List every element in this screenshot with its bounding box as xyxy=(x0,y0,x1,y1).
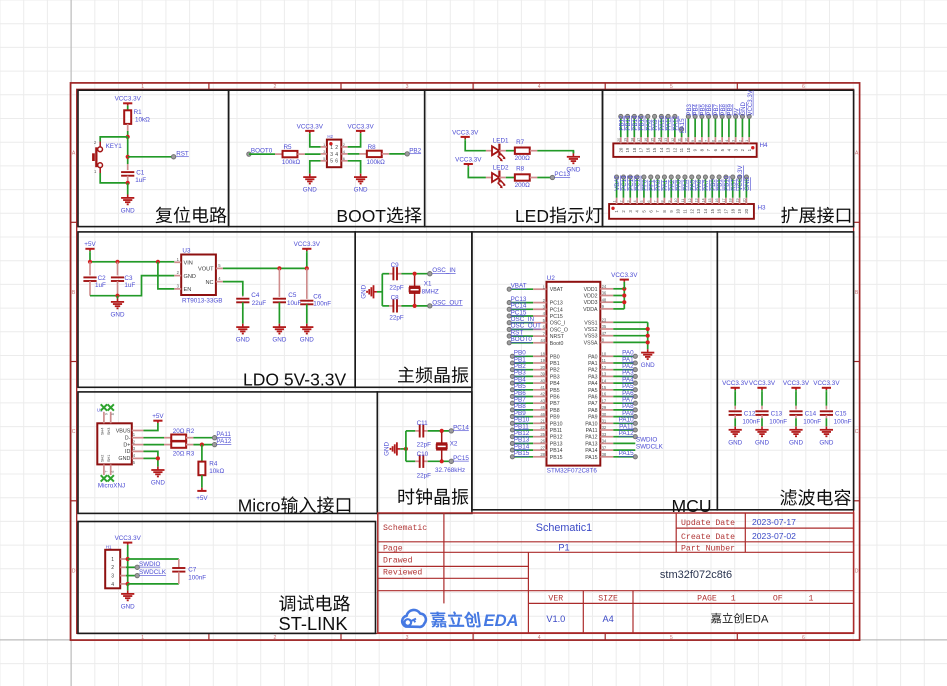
svg-text:EN: EN xyxy=(184,287,192,293)
svg-text:ST-LINK: ST-LINK xyxy=(279,613,348,634)
node reset junction top xyxy=(126,135,130,139)
svg-text:GND: GND xyxy=(641,362,655,369)
svg-text:20: 20 xyxy=(744,208,749,213)
svg-text:6: 6 xyxy=(802,84,805,90)
wire LED2 to R8 xyxy=(499,177,506,179)
wire H2 pin4 to R8 xyxy=(348,153,360,155)
svg-text:5: 5 xyxy=(670,635,673,641)
wire node to switch xyxy=(100,137,128,142)
switch KEY1 xyxy=(92,140,122,174)
svg-text:PB1: PB1 xyxy=(550,361,560,367)
svg-text:47: 47 xyxy=(602,331,607,336)
svg-text:1: 1 xyxy=(613,200,617,202)
svg-text:15: 15 xyxy=(708,198,712,202)
svg-text:1: 1 xyxy=(330,145,333,151)
svg-text:14: 14 xyxy=(701,198,705,202)
svg-text:1: 1 xyxy=(111,557,114,563)
svg-text:38: 38 xyxy=(602,452,607,457)
ground GND rotated (xtal2) xyxy=(384,441,406,455)
block box expansion xyxy=(603,90,854,226)
title block vendor name xyxy=(711,613,769,626)
svg-text:R8: R8 xyxy=(368,144,377,151)
svg-text:PA2: PA2 xyxy=(588,368,598,374)
node ldo rail c xyxy=(156,260,160,264)
ground GND (mcu) xyxy=(641,349,655,369)
svg-text:10uF: 10uF xyxy=(287,300,302,307)
block box ldo xyxy=(78,232,355,387)
wire switch to bottom node xyxy=(100,173,128,183)
svg-text:LED2: LED2 xyxy=(493,164,509,171)
svg-text:18: 18 xyxy=(630,138,634,142)
svg-text:42: 42 xyxy=(540,392,545,397)
resistor R8 (boot) xyxy=(359,144,389,166)
svg-text:LED1: LED1 xyxy=(493,138,509,145)
svg-text:2: 2 xyxy=(274,635,277,641)
ground GND (C15) xyxy=(819,426,833,446)
node RST tap xyxy=(126,155,130,159)
wire node down to C1 xyxy=(127,137,129,164)
wire xtal1 left riser xyxy=(381,274,383,306)
svg-text:18: 18 xyxy=(540,352,545,357)
wire +5V rail xyxy=(90,252,174,262)
svg-text:3: 3 xyxy=(732,140,736,142)
svg-text:14: 14 xyxy=(703,208,708,213)
svg-text:10: 10 xyxy=(602,352,607,357)
node usb gnd junction xyxy=(156,456,160,460)
svg-text:17: 17 xyxy=(637,138,641,142)
svg-text:13: 13 xyxy=(664,138,668,142)
svg-text:2: 2 xyxy=(274,84,277,90)
wire H1 pin2 SWDIO xyxy=(126,566,137,568)
svg-text:36: 36 xyxy=(602,291,607,296)
svg-text:PB2: PB2 xyxy=(409,147,421,154)
wire VCC to H2 pin1 xyxy=(310,134,321,147)
svg-text:PB10: PB10 xyxy=(550,421,563,427)
capacitor C3 xyxy=(111,262,136,296)
svg-text:PA7: PA7 xyxy=(588,401,598,407)
ground GND (C5) xyxy=(272,324,286,344)
capacitor C1 xyxy=(121,169,146,184)
pin header H1 xyxy=(105,544,126,588)
svg-text:15: 15 xyxy=(710,208,715,213)
svg-text:A4: A4 xyxy=(602,614,613,624)
svg-text:D-: D- xyxy=(125,436,131,442)
svg-text:GND: GND xyxy=(384,441,391,455)
wire xtal2 top xyxy=(406,430,415,432)
svg-text:D+: D+ xyxy=(123,442,130,448)
svg-text:12: 12 xyxy=(672,147,677,152)
svg-text:22pF: 22pF xyxy=(389,315,404,322)
power flag VCC3.3V (debug) xyxy=(115,535,142,546)
ground GND (boot left) xyxy=(303,174,317,194)
svg-text:+5V: +5V xyxy=(84,241,96,248)
svg-text:PB2: PB2 xyxy=(550,368,560,374)
wire R3 to PA12 xyxy=(193,444,214,446)
svg-text:PB3: PB3 xyxy=(550,374,560,380)
svg-text:2: 2 xyxy=(619,200,623,202)
svg-text:1uF: 1uF xyxy=(95,282,106,289)
svg-text:R7: R7 xyxy=(516,139,525,146)
svg-text:5: 5 xyxy=(718,140,722,142)
svg-text:PA14: PA14 xyxy=(585,448,597,454)
crystal X1 xyxy=(409,276,439,304)
svg-text:H2: H2 xyxy=(327,134,333,139)
svg-text:27: 27 xyxy=(540,445,545,450)
title micro block xyxy=(238,496,351,516)
svg-text:1: 1 xyxy=(745,140,749,142)
capacitor C11 xyxy=(417,420,432,449)
svg-text:14: 14 xyxy=(602,378,607,383)
svg-text:12: 12 xyxy=(671,138,675,142)
svg-text:VBUS: VBUS xyxy=(116,428,131,434)
svg-text:GND: GND xyxy=(303,187,317,194)
svg-text:8: 8 xyxy=(698,140,702,142)
power flag VCC3.3V (ldo out) xyxy=(294,241,321,252)
svg-text:C10: C10 xyxy=(417,451,429,458)
svg-text:Page: Page xyxy=(383,544,403,553)
svg-text:200Ω: 200Ω xyxy=(515,182,531,189)
svg-text:VCC3.3V: VCC3.3V xyxy=(783,380,810,387)
svg-text:PA5: PA5 xyxy=(588,388,598,394)
svg-text:35: 35 xyxy=(602,324,607,329)
svg-text:12: 12 xyxy=(688,198,692,202)
svg-text:C8: C8 xyxy=(391,295,400,302)
svg-text:23: 23 xyxy=(602,318,607,323)
svg-text:2: 2 xyxy=(335,145,338,151)
svg-text:C14: C14 xyxy=(805,410,817,417)
svg-text:R4: R4 xyxy=(209,460,218,467)
svg-text:PC13: PC13 xyxy=(550,301,563,307)
wire R7 to GND xyxy=(537,151,573,154)
capacitor C5 xyxy=(273,268,302,323)
net port BOOT0 xyxy=(247,148,273,157)
wire H1 pin1 xyxy=(126,558,128,560)
capacitor C10 xyxy=(417,451,432,479)
svg-text:19: 19 xyxy=(737,208,742,213)
svg-text:11: 11 xyxy=(681,199,685,203)
wire D+ to R3 xyxy=(144,444,165,446)
svg-text:100nF: 100nF xyxy=(313,301,331,308)
svg-text:OF: OF xyxy=(773,595,783,604)
svg-text:GND: GND xyxy=(121,208,135,215)
block box boot xyxy=(229,90,425,226)
svg-text:29: 29 xyxy=(602,405,607,410)
svg-text:PB13: PB13 xyxy=(550,441,563,447)
svg-text:9: 9 xyxy=(691,140,695,142)
svg-text:PA12: PA12 xyxy=(619,430,634,437)
ground GND (usb) xyxy=(151,467,165,487)
svg-text:X2: X2 xyxy=(450,440,458,447)
wire R4 to +5V flag xyxy=(201,475,203,488)
capacitor C9 xyxy=(389,262,404,291)
mcu right PA0-PA15 pins xyxy=(585,350,663,461)
wire xtal1 top xyxy=(382,273,389,275)
resistor R3 xyxy=(164,441,195,457)
svg-text:18: 18 xyxy=(632,147,637,152)
svg-text:100kΩ: 100kΩ xyxy=(282,159,301,166)
svg-text:SH2: SH2 xyxy=(100,455,104,462)
svg-text:PB7: PB7 xyxy=(550,401,560,407)
led LED1 xyxy=(486,138,509,162)
net port PA11 xyxy=(212,431,231,440)
net port SWDCLK (debug) xyxy=(135,569,167,578)
capacitor C6 xyxy=(300,268,331,323)
wire VCC to LED1 xyxy=(465,140,486,151)
svg-text:LED: LED xyxy=(515,206,549,226)
svg-text:1: 1 xyxy=(808,595,813,604)
wire H1 pin4 gnd xyxy=(126,583,128,585)
block box mcu xyxy=(472,232,717,510)
svg-text:ID: ID xyxy=(125,449,130,455)
svg-text:3: 3 xyxy=(626,200,630,202)
svg-text:100nF: 100nF xyxy=(742,418,760,425)
svg-text:1: 1 xyxy=(731,595,736,604)
svg-text:P1: P1 xyxy=(558,543,569,553)
svg-text:11: 11 xyxy=(602,358,607,363)
resistor R2 xyxy=(164,428,195,441)
wire C7 top xyxy=(128,558,179,560)
title xtal main block xyxy=(398,366,468,383)
svg-text:MicroXNJ: MicroXNJ xyxy=(98,482,125,489)
net port PC14 xyxy=(449,424,469,433)
svg-text:GND: GND xyxy=(744,177,751,191)
title led block xyxy=(515,206,602,226)
title block table lines xyxy=(378,513,854,633)
usb signal pins xyxy=(116,428,144,465)
ground GND (reset) xyxy=(121,183,135,215)
svg-text:20: 20 xyxy=(540,365,545,370)
svg-text:17: 17 xyxy=(722,198,726,202)
svg-text:13: 13 xyxy=(696,208,701,213)
capacitor C8 xyxy=(389,295,404,322)
svg-text:VCC3.3V: VCC3.3V xyxy=(294,241,321,248)
svg-text:10: 10 xyxy=(674,198,678,202)
svg-text:C11: C11 xyxy=(417,420,429,427)
wire ID to gnd riser xyxy=(144,451,158,466)
svg-text:17: 17 xyxy=(639,147,644,152)
svg-text:1: 1 xyxy=(141,635,144,641)
svg-text:VIN: VIN xyxy=(184,261,193,267)
svg-text:14: 14 xyxy=(657,138,661,142)
svg-text:5: 5 xyxy=(670,84,673,90)
pin header H3 with ports xyxy=(609,164,766,218)
svg-text:OSC_OUT: OSC_OUT xyxy=(432,299,463,306)
power flag VCC3.3V (filter C13) xyxy=(749,380,776,391)
crystal X2 xyxy=(435,432,465,474)
svg-text:Create Date: Create Date xyxy=(681,533,735,542)
svg-text:4: 4 xyxy=(111,582,114,588)
svg-text:KEY1: KEY1 xyxy=(106,143,123,150)
wire BOOT0 to R5 xyxy=(249,153,275,155)
svg-text:3: 3 xyxy=(111,574,114,580)
svg-text:100nF: 100nF xyxy=(769,418,787,425)
svg-text:10kΩ: 10kΩ xyxy=(135,117,150,124)
wire VOUT rail xyxy=(223,252,307,268)
node debug pin1 xyxy=(126,557,130,561)
capacitor C15 xyxy=(820,391,852,426)
pin header H2 xyxy=(321,134,348,167)
power flag VCC3.3V (led2) xyxy=(455,156,482,167)
svg-text:PB9: PB9 xyxy=(550,415,560,421)
svg-text:100nF: 100nF xyxy=(834,418,852,425)
resistor R1 xyxy=(124,109,150,124)
svg-text:4: 4 xyxy=(633,200,637,202)
svg-text:33: 33 xyxy=(602,432,607,437)
power flag +5V (usb) xyxy=(152,413,164,424)
frame grid references xyxy=(72,84,859,641)
node xtal1 top xyxy=(413,272,417,276)
svg-text:PB5: PB5 xyxy=(550,388,560,394)
svg-text:40: 40 xyxy=(540,378,545,383)
svg-text:4: 4 xyxy=(538,635,541,641)
svg-text:PC14: PC14 xyxy=(453,424,469,431)
wire RST xyxy=(128,156,174,158)
svg-text:22pF: 22pF xyxy=(389,284,404,291)
svg-text:PA10: PA10 xyxy=(585,421,597,427)
mcu U2 body xyxy=(547,282,601,466)
svg-text:9: 9 xyxy=(104,413,108,415)
svg-text:3: 3 xyxy=(406,635,409,641)
wire R1 to node xyxy=(127,124,129,131)
resistor R7 xyxy=(515,139,538,162)
svg-text:10kΩ: 10kΩ xyxy=(209,468,224,475)
svg-text:10: 10 xyxy=(686,147,691,152)
mcu left upper pins (VBAT PC13-15 OSC RST BOOT0) xyxy=(507,283,568,347)
svg-text:7: 7 xyxy=(705,140,709,142)
svg-text:D: D xyxy=(855,568,859,574)
svg-text:GND: GND xyxy=(300,337,314,344)
svg-text:C1: C1 xyxy=(136,169,145,176)
title filter block xyxy=(780,489,851,506)
svg-text:Update Date: Update Date xyxy=(681,518,735,528)
svg-text:V1.0: V1.0 xyxy=(546,614,565,624)
wire debug vcc riser xyxy=(127,546,129,584)
node ldo rail a xyxy=(88,260,92,264)
svg-text:VCC3.3V: VCC3.3V xyxy=(452,129,479,136)
svg-text:Reviewed: Reviewed xyxy=(383,568,422,578)
svg-text:H1: H1 xyxy=(106,544,112,549)
wire xtal2 riser xyxy=(405,431,407,461)
svg-text:Drawed: Drawed xyxy=(383,556,413,566)
svg-text:41: 41 xyxy=(540,385,545,390)
svg-text:PB4: PB4 xyxy=(550,381,560,387)
power flag VCC3.3V (mcu) xyxy=(611,272,638,283)
svg-text:GND: GND xyxy=(728,439,742,446)
title reset block xyxy=(156,207,227,224)
block box debug xyxy=(78,522,376,634)
ground GND (C12) xyxy=(728,426,742,446)
svg-text:12: 12 xyxy=(602,365,607,370)
wire D- to R2 xyxy=(144,437,165,439)
svg-text:D: D xyxy=(72,568,76,574)
net port PC15 xyxy=(449,455,469,464)
svg-text:1: 1 xyxy=(141,84,144,90)
svg-text:R5: R5 xyxy=(284,144,293,151)
svg-text:19: 19 xyxy=(624,138,628,142)
wire junction to R4 xyxy=(201,445,203,462)
svg-text:22pF: 22pF xyxy=(417,472,432,479)
title xtal clock block xyxy=(398,488,468,505)
net port OSC_IN xyxy=(428,267,456,276)
svg-text:PA4: PA4 xyxy=(588,381,598,387)
node reset junction bottom xyxy=(126,181,130,185)
svg-text:SWDCLK: SWDCLK xyxy=(139,569,167,576)
svg-text:U3: U3 xyxy=(182,248,191,255)
svg-text:VDD2: VDD2 xyxy=(584,294,598,300)
svg-text:PB15: PB15 xyxy=(550,455,563,461)
svg-text:10: 10 xyxy=(676,208,681,213)
capacitor C4 xyxy=(236,292,266,324)
ground GND (C13) xyxy=(755,426,769,446)
node D+ junction xyxy=(200,443,204,447)
svg-text:1uF: 1uF xyxy=(135,177,146,184)
svg-text:C13: C13 xyxy=(771,410,783,417)
usb shield pins with no-connect marks xyxy=(100,404,115,481)
capacitor C13 xyxy=(755,391,787,426)
svg-text:R8: R8 xyxy=(516,166,525,173)
svg-text:PC15: PC15 xyxy=(550,314,563,320)
title expansion block xyxy=(781,207,850,224)
svg-text:48: 48 xyxy=(602,297,607,302)
wire xtal2 bottom xyxy=(406,460,415,462)
svg-text:2: 2 xyxy=(111,565,114,571)
svg-text:32.768kHz: 32.768kHz xyxy=(435,467,465,474)
svg-text:C: C xyxy=(855,429,859,435)
svg-text:NRST: NRST xyxy=(550,334,565,340)
led LED2 xyxy=(486,164,509,188)
svg-text:stm32f072c8t6: stm32f072c8t6 xyxy=(660,569,732,581)
node debug pin4 xyxy=(126,582,130,586)
svg-text:GND: GND xyxy=(755,439,769,446)
power flag +5V (ldo) xyxy=(84,241,96,252)
svg-text:SH4: SH4 xyxy=(100,428,104,435)
svg-text:VSS2: VSS2 xyxy=(584,327,597,333)
svg-text:1uF: 1uF xyxy=(124,282,135,289)
svg-text:PB6: PB6 xyxy=(550,395,560,401)
svg-text:H4: H4 xyxy=(760,142,769,149)
svg-text:PA6: PA6 xyxy=(588,395,598,401)
node xtal2 gnd tap xyxy=(404,447,408,451)
title block texts xyxy=(383,517,813,624)
svg-text:LDO 5V-3.3V: LDO 5V-3.3V xyxy=(243,369,346,389)
capacitor C14 xyxy=(789,391,821,426)
net port OSC_OUT xyxy=(428,299,463,308)
net port SWDIO (debug) xyxy=(135,561,160,570)
svg-text:26: 26 xyxy=(540,439,545,444)
svg-text:MCU: MCU xyxy=(672,496,712,516)
wire R8 to PC13 xyxy=(537,177,552,179)
svg-text:5: 5 xyxy=(640,200,644,202)
svg-text:Schematic1: Schematic1 xyxy=(536,522,592,534)
svg-text:16: 16 xyxy=(645,147,650,152)
svg-text:2023-07-02: 2023-07-02 xyxy=(752,531,796,541)
svg-text:VER: VER xyxy=(548,595,563,604)
power flag VCC3.3V (led1) xyxy=(452,129,479,140)
svg-text:VSSA: VSSA xyxy=(584,340,598,346)
svg-text:44: 44 xyxy=(540,338,545,343)
svg-text:OSC_O: OSC_O xyxy=(550,327,568,333)
svg-text:C4: C4 xyxy=(251,292,260,299)
capacitor C2 xyxy=(83,262,106,296)
title debug block line1 xyxy=(279,595,350,612)
svg-text:VDD3: VDD3 xyxy=(584,300,598,306)
svg-text:B: B xyxy=(855,290,859,296)
svg-text:GND: GND xyxy=(121,604,135,611)
capacitor C12 xyxy=(729,391,761,426)
svg-text:VSS3: VSS3 xyxy=(584,334,597,340)
ground GND rotated (xtal1) xyxy=(360,284,382,298)
resistor R8 (led) xyxy=(515,166,538,189)
